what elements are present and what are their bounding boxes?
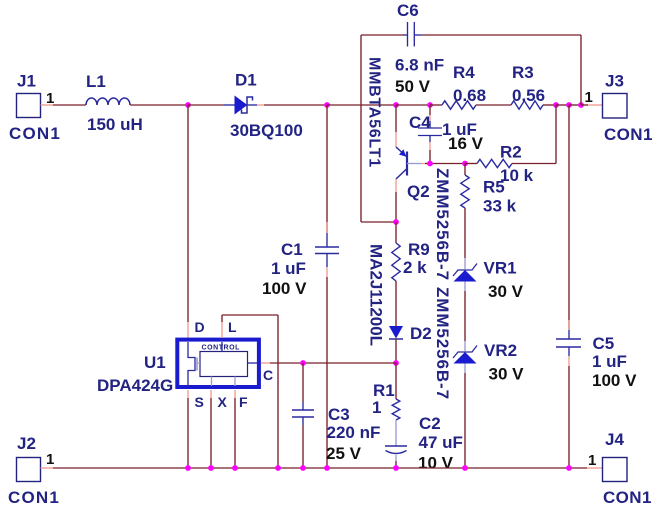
wire C3 to ground rail	[302, 417, 304, 425]
capacitor C5	[556, 338, 581, 340]
svg-text:CON1: CON1	[8, 488, 60, 507]
U1 internal X F leads	[211, 377, 213, 387]
svg-text:30BQ100: 30BQ100	[230, 121, 303, 140]
node R5-top junction	[462, 161, 468, 167]
svg-text:VR1: VR1	[484, 259, 517, 278]
node B junction	[324, 102, 330, 108]
svg-text:MMBTA56LT1: MMBTA56LT1	[365, 57, 382, 168]
wire C6 left leg	[361, 34, 403, 36]
wire base to R5 node	[425, 163, 465, 165]
svg-text:100 V: 100 V	[262, 279, 307, 298]
wire R3 to output node	[543, 104, 556, 106]
node A junction	[185, 102, 191, 108]
svg-text:16 V: 16 V	[448, 134, 484, 153]
junction S pin on rail	[185, 465, 191, 471]
wire node B down to C1	[326, 105, 328, 233]
svg-text:0.68: 0.68	[453, 86, 486, 105]
svg-text:C6: C6	[397, 1, 419, 20]
junction C5 on rail	[566, 465, 572, 471]
junction C3 on rail	[300, 465, 306, 471]
wire R4 to R3	[476, 104, 511, 106]
svg-text:VR2: VR2	[484, 341, 517, 360]
svg-text:33 k: 33 k	[483, 197, 517, 216]
wire to R4	[430, 104, 442, 106]
svg-text:1 uF: 1 uF	[592, 352, 627, 371]
svg-text:2 k: 2 k	[403, 258, 427, 277]
inductor L1	[86, 98, 130, 105]
wire segment	[569, 104, 581, 106]
svg-text:L1: L1	[86, 72, 106, 91]
svg-text:1: 1	[46, 451, 54, 468]
svg-text:MA2J11200L: MA2J11200L	[366, 244, 385, 346]
resistor R2	[477, 159, 512, 167]
junction C2 on rail	[393, 465, 399, 471]
svg-text:U1: U1	[144, 353, 166, 372]
wire to J4	[587, 467, 602, 469]
svg-text:R2: R2	[500, 143, 522, 162]
node D junction	[393, 360, 399, 366]
connector J1	[17, 94, 41, 118]
zener diode VR2	[453, 346, 477, 359]
svg-text:1 uF: 1 uF	[271, 259, 306, 278]
svg-text:D: D	[195, 319, 205, 335]
wire VR2 to ground rail	[464, 364, 466, 374]
connector J2	[17, 458, 41, 482]
svg-text:D1: D1	[235, 71, 257, 90]
wire output node down to C5	[568, 105, 570, 330]
svg-text:ZMM5256B-7: ZMM5256B-7	[433, 287, 452, 400]
wire VR1 to VR2	[464, 282, 466, 292]
svg-text:1: 1	[372, 398, 381, 417]
wire X pin to ground rail	[210, 390, 212, 398]
svg-text:10 k: 10 k	[500, 166, 534, 185]
junction VR2 on rail	[462, 465, 468, 471]
wire collector	[395, 179, 397, 192]
capacitor C1	[315, 246, 339, 248]
svg-text:CON1: CON1	[9, 124, 61, 143]
node C5-branch junction	[566, 102, 572, 108]
wire to J3	[581, 104, 588, 106]
wire node B to Q2 emitter node	[327, 104, 396, 106]
transistor Q2 (PNP)	[406, 152, 408, 176]
resistor R4	[442, 101, 476, 109]
wire C6 right leg	[421, 34, 581, 36]
svg-text:100 V: 100 V	[592, 371, 637, 390]
wire D2 to node D	[395, 339, 397, 363]
svg-text:25 V: 25 V	[326, 444, 362, 463]
node C3-top junction	[300, 360, 306, 366]
svg-text:L: L	[228, 319, 237, 335]
wire F pin to ground rail	[234, 390, 236, 398]
capacitor C4	[429, 105, 431, 115]
wire C2 to ground rail	[395, 455, 397, 461]
svg-text:C4: C4	[409, 113, 431, 132]
node C6-branch junction	[578, 102, 584, 108]
U1 internal L lead	[221, 342, 223, 352]
svg-text:R5: R5	[483, 178, 505, 197]
node C4-bottom junction	[427, 161, 433, 167]
svg-text:30 V: 30 V	[488, 282, 524, 301]
junction C1 on rail	[324, 465, 330, 471]
svg-text:J4: J4	[605, 430, 624, 449]
svg-text:Q2: Q2	[407, 182, 430, 201]
node R2-branch junction	[553, 102, 559, 108]
wire C6-left down to collector node	[361, 221, 396, 223]
svg-text:D2: D2	[410, 324, 432, 343]
svg-text:C: C	[263, 367, 273, 383]
svg-text:CON1: CON1	[603, 488, 652, 507]
svg-text:ZMM5256B-7: ZMM5256B-7	[433, 168, 452, 281]
U1 internal C lead	[248, 362, 258, 364]
svg-text:J3: J3	[605, 72, 624, 91]
svg-text:220 nF: 220 nF	[327, 423, 381, 442]
wire J1 to L1	[53, 104, 86, 106]
wire D1 to node B	[257, 104, 264, 106]
svg-text:S: S	[195, 394, 204, 410]
svg-text:C3: C3	[328, 405, 350, 424]
svg-text:J2: J2	[17, 434, 36, 453]
connector J3	[603, 94, 628, 119]
junction L branch on rail	[275, 465, 281, 471]
svg-text:R4: R4	[453, 63, 475, 82]
wire L pin up and over	[221, 322, 223, 338]
svg-text:C5: C5	[593, 334, 615, 353]
svg-text:1: 1	[588, 452, 596, 469]
svg-text:C1: C1	[281, 240, 303, 259]
wire C1 down to ground rail	[326, 254, 328, 268]
capacitor C2 (polarized)	[395, 420, 397, 433]
svg-text:CONTROL: CONTROL	[202, 345, 241, 352]
node C4-top junction	[427, 102, 433, 108]
wire S pin to ground rail	[187, 390, 189, 398]
node collector junction	[393, 219, 399, 225]
svg-text:0.56: 0.56	[512, 86, 545, 105]
wire C5 down to ground rail	[568, 347, 570, 356]
svg-text:F: F	[239, 394, 248, 410]
svg-text:47 uF: 47 uF	[419, 433, 463, 452]
svg-text:R3: R3	[512, 63, 534, 82]
wire R5 to VR1	[464, 208, 466, 258]
wire R9 to D2	[395, 281, 397, 326]
wire L1 to node A	[130, 104, 188, 106]
diode D2	[389, 326, 403, 339]
wire R2 to output rail	[512, 163, 556, 165]
svg-text:J1: J1	[17, 72, 36, 91]
svg-text:150 uH: 150 uH	[87, 115, 143, 134]
wire to C4 node	[396, 104, 430, 106]
svg-text:R9: R9	[408, 240, 430, 259]
ground rail wire	[53, 467, 587, 469]
zener diode VR1	[453, 264, 477, 277]
U1 control block	[200, 352, 248, 377]
capacitor C3	[292, 409, 314, 411]
resistor R3	[511, 101, 543, 109]
svg-text:C2: C2	[419, 414, 441, 433]
resistor R1	[395, 363, 397, 399]
wire to R2	[465, 163, 477, 165]
svg-text:X: X	[218, 394, 228, 410]
wire C pin to node D	[261, 362, 270, 364]
resistor R5	[464, 164, 466, 176]
U1 internal mosfet	[188, 342, 195, 386]
wire emitter	[395, 105, 397, 132]
wire node A down to U1 drain	[187, 105, 189, 322]
svg-text:DPA424G: DPA424G	[97, 376, 173, 395]
wire C3 top	[302, 363, 304, 402]
capacitor C6	[403, 34, 408, 36]
wire segment	[556, 104, 569, 106]
junction X pin on rail	[208, 465, 214, 471]
svg-text:10 V: 10 V	[418, 454, 454, 473]
connector J4	[603, 458, 628, 482]
diode D1 (schottky)	[224, 104, 235, 106]
svg-text:30 V: 30 V	[489, 365, 525, 384]
junction F pin on rail	[232, 465, 238, 471]
base lead	[407, 163, 421, 165]
svg-text:1: 1	[585, 89, 593, 106]
node emitter junction	[393, 102, 399, 108]
wire node A to D1	[188, 104, 224, 106]
svg-text:50 V: 50 V	[395, 77, 431, 96]
svg-text:6.8 nF: 6.8 nF	[395, 56, 444, 75]
svg-text:CON1: CON1	[604, 125, 653, 144]
IC U1 outline	[177, 340, 259, 387]
resistor R9	[395, 222, 397, 243]
